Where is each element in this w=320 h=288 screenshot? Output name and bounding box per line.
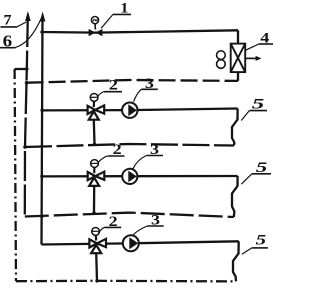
load 5 riser 3 (zigzag break)	[233, 241, 239, 281]
wire supply main vertical (pipe 6)	[42, 17, 43, 245]
label 5 load3	[242, 232, 268, 254]
label 2 row3	[98, 214, 121, 234]
junction return main / heater return	[25, 81, 29, 85]
wire riser to heater top	[237, 30, 239, 43]
label 3 row1	[134, 76, 158, 102]
air flow arrow of unit 4	[245, 57, 257, 59]
fan circles of unit 4	[217, 51, 226, 60]
valve V1 stem	[94, 24, 96, 30]
label 5 load2	[241, 160, 271, 184]
junction return main / row1 return	[23, 145, 27, 149]
arrow on return main	[25, 11, 31, 21]
wire bottom return line (dash-dot)	[16, 280, 236, 283]
crossing blob supply main / row1 return	[40, 145, 43, 148]
wire row2 supply line	[42, 175, 238, 178]
label 7	[1, 13, 27, 29]
label 2 row1	[97, 78, 122, 98]
wire top supply line	[42, 30, 238, 32]
label 4	[246, 30, 273, 50]
load 5 riser 2 (zigzag break)	[232, 176, 238, 217]
load 5 riser 1 (zigzag break)	[232, 109, 238, 146]
wire row3 supply line	[42, 241, 239, 244]
label 3 row2	[133, 142, 163, 169]
bypass stem row3	[95, 253, 98, 281]
wire riser from heater bottom	[237, 72, 239, 81]
wire row1 return line (dashed)	[25, 144, 234, 147]
wire left drop pipe (dash-dot)	[15, 69, 16, 281]
label 3 row3	[133, 213, 164, 236]
pump 3 row2	[122, 169, 137, 184]
pump 3 row3	[123, 235, 139, 251]
junction return main / drop branch	[25, 67, 29, 71]
valve 1 (two-way, filled)	[89, 17, 103, 37]
wire row1 supply line	[42, 109, 238, 111]
junction row3 bypass stem / bottom return	[95, 279, 98, 282]
bypass stem row1	[93, 120, 96, 145]
label 1	[101, 0, 131, 28]
bypass stem row2	[93, 186, 95, 213]
junction supply main / top line	[40, 30, 44, 34]
wire return main vertical (pipe 7)	[25, 17, 28, 217]
junction row1 bypass stem / row1 return	[93, 143, 96, 146]
wire heater return line (dash-dot)	[27, 80, 238, 83]
svg-text:5: 5	[256, 232, 267, 248]
pump 3 row1	[122, 103, 137, 118]
air heater unit 4	[217, 44, 258, 73]
label 6	[0, 18, 41, 50]
label 5 load1	[241, 96, 267, 120]
junction supply main / row1 supply	[40, 109, 44, 113]
wire row2 return line (dashed)	[25, 213, 234, 217]
three-way valve 2 row3	[89, 228, 106, 254]
crossing blob supply main / row2 return	[40, 216, 43, 219]
wire branch from return main to drop pipe	[15, 68, 27, 70]
junction row2 bypass stem / row2 return	[92, 211, 95, 214]
label 2 row2	[98, 142, 125, 163]
three-way valve 2 row1	[88, 94, 105, 120]
three-way valve 2 row2	[88, 160, 105, 186]
junction supply main / row2 supply	[40, 175, 44, 179]
arrow on supply main	[40, 12, 46, 22]
